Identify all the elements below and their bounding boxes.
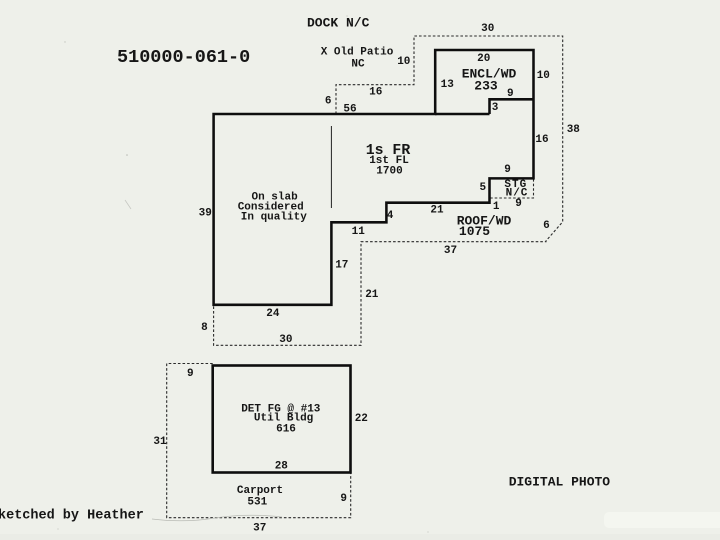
svg-text:DIGITAL PHOTO: DIGITAL PHOTO [509, 475, 611, 490]
svg-text:37: 37 [253, 522, 266, 534]
svg-text:20: 20 [477, 53, 490, 65]
svg-text:1700: 1700 [376, 166, 402, 178]
svg-text:30: 30 [279, 334, 292, 346]
svg-text:22: 22 [355, 413, 368, 425]
svg-text:In quality: In quality [241, 212, 307, 224]
svg-text:30: 30 [481, 23, 494, 35]
svg-text:6: 6 [543, 220, 550, 232]
svg-text:1: 1 [493, 201, 500, 213]
svg-text:21: 21 [365, 289, 379, 301]
svg-text:39: 39 [199, 208, 212, 220]
svg-text:9: 9 [340, 493, 347, 505]
svg-text:616: 616 [276, 424, 296, 436]
svg-text:11: 11 [352, 226, 366, 238]
svg-text:21: 21 [430, 204, 444, 216]
svg-text:NC: NC [351, 59, 365, 71]
svg-text:16: 16 [369, 86, 382, 98]
svg-text:9: 9 [187, 368, 194, 380]
svg-text:1075: 1075 [459, 224, 490, 239]
svg-text:9: 9 [515, 198, 522, 210]
svg-text:16: 16 [535, 134, 548, 146]
svg-text:56: 56 [343, 104, 356, 116]
svg-text:8: 8 [201, 322, 208, 334]
svg-text:510000-061-0: 510000-061-0 [117, 47, 250, 68]
svg-text:9: 9 [504, 164, 511, 176]
svg-text:10: 10 [397, 56, 410, 68]
svg-text:24: 24 [266, 308, 280, 320]
svg-text:6: 6 [325, 96, 332, 108]
svg-text:4: 4 [387, 210, 394, 222]
svg-text:ketched by Heather: ketched by Heather [0, 508, 144, 523]
svg-text:38: 38 [567, 124, 581, 136]
svg-text:28: 28 [275, 461, 289, 473]
svg-text:X Old Patio: X Old Patio [321, 47, 394, 59]
svg-text:9: 9 [507, 88, 514, 100]
svg-text:10: 10 [537, 70, 550, 82]
svg-text:233: 233 [474, 79, 498, 94]
svg-text:3: 3 [492, 102, 499, 114]
svg-text:531: 531 [247, 497, 267, 509]
svg-text:5: 5 [479, 182, 486, 194]
svg-text:31: 31 [153, 436, 167, 448]
svg-text:Carport: Carport [237, 485, 283, 497]
svg-text:37: 37 [444, 245, 457, 257]
svg-text:13: 13 [441, 79, 455, 91]
svg-text:17: 17 [335, 260, 348, 272]
svg-text:DOCK N/C: DOCK N/C [307, 16, 370, 31]
